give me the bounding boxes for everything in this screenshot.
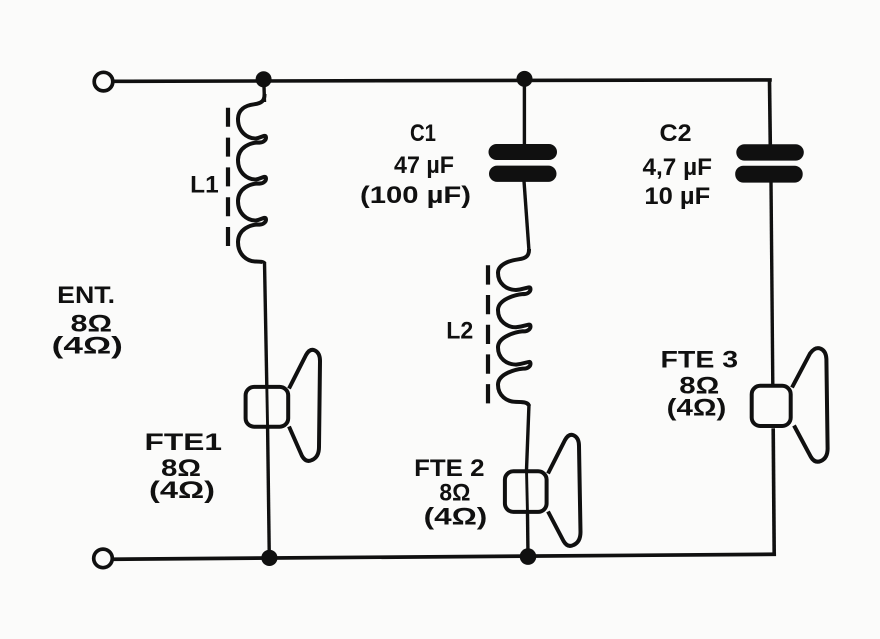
label L1 — [190, 172, 219, 199]
svg-text:FTE 2: FTE 2 — [414, 455, 484, 482]
wire top bus — [114, 80, 770, 81]
label FTE2 8ohm (4ohm) — [414, 455, 487, 530]
wire FTE2 to bottom bus — [526, 514, 530, 558]
inductor L1 — [238, 94, 266, 263]
svg-text:FTE 3: FTE 3 — [661, 346, 739, 373]
svg-text:C1: C1 — [410, 120, 436, 147]
L1 core dashed line — [226, 108, 230, 246]
wire junction A to L1 — [262, 80, 266, 102]
wire FTE3 to bottom bus — [773, 428, 774, 554]
svg-text:L1: L1 — [190, 172, 219, 199]
speaker FTE3 — [752, 348, 828, 462]
node: bottom-middle junction — [520, 548, 537, 565]
L2 core dashed line — [486, 265, 490, 404]
svg-text:(4Ω): (4Ω) — [667, 395, 727, 422]
wire bottom bus — [114, 554, 774, 559]
input terminal bottom — [94, 549, 113, 568]
svg-text:(4Ω): (4Ω) — [149, 477, 215, 504]
wire L2 to FTE2 — [527, 404, 530, 470]
node B: top-middle junction — [517, 71, 533, 87]
svg-text:(100 µF): (100 µF) — [360, 182, 471, 209]
svg-text:4,7 µF: 4,7 µF — [643, 154, 713, 181]
speaker FTE2 — [505, 435, 581, 546]
label FTE1 8ohm (4ohm) — [145, 429, 223, 504]
svg-text:ENT.: ENT. — [57, 282, 115, 309]
label C2 4,7uF 10uF — [643, 120, 713, 210]
label L2 — [446, 318, 473, 345]
input terminal top — [94, 72, 113, 91]
capacitor C2 — [735, 144, 804, 182]
svg-text:L2: L2 — [446, 318, 473, 345]
svg-text:C2: C2 — [660, 120, 692, 147]
label FTE3 8ohm (4ohm) — [661, 346, 739, 421]
wire L1 to FTE1 — [265, 262, 267, 386]
label ENT. 8ohm (4ohm) — [52, 282, 123, 360]
svg-text:47 µF: 47 µF — [394, 152, 454, 179]
inductor L2 — [498, 249, 530, 406]
wire C1 to L2 — [524, 181, 529, 251]
node A: top-left junction — [256, 71, 272, 87]
wire top-right corner drop to C2 — [768, 80, 772, 146]
wire FTE1 to bottom bus — [268, 429, 270, 559]
svg-text:FTE1: FTE1 — [145, 429, 223, 456]
wire C2 to FTE3 — [771, 181, 773, 385]
speaker FTE1 — [246, 350, 320, 461]
capacitor C1 — [489, 144, 558, 182]
svg-text:(4Ω): (4Ω) — [424, 503, 488, 530]
svg-text:(4Ω): (4Ω) — [52, 333, 123, 360]
node: bottom-left junction — [261, 550, 277, 566]
label C1 47uF (100uF) — [360, 120, 471, 209]
wire junction B to C1 — [523, 80, 526, 146]
svg-text:10 µF: 10 µF — [644, 183, 710, 210]
